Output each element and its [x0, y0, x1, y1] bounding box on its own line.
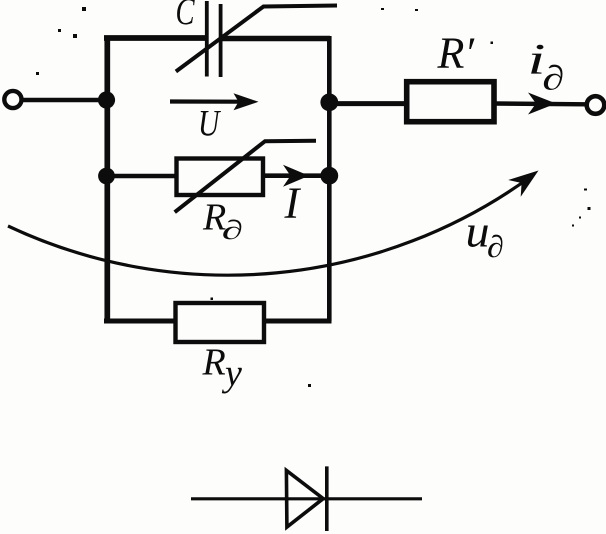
- svg-text:I: I: [284, 178, 302, 228]
- svg-text:∂: ∂: [222, 215, 243, 245]
- svg-text:u: u: [466, 207, 490, 257]
- svg-text:U: U: [198, 103, 222, 144]
- svg-text:y: y: [221, 353, 242, 395]
- svg-text:R: R: [202, 342, 226, 384]
- svg-text:∂: ∂: [542, 59, 564, 97]
- svg-text:R′: R′: [437, 29, 476, 78]
- svg-text:∂: ∂: [487, 230, 504, 264]
- svg-text:C: C: [176, 0, 196, 33]
